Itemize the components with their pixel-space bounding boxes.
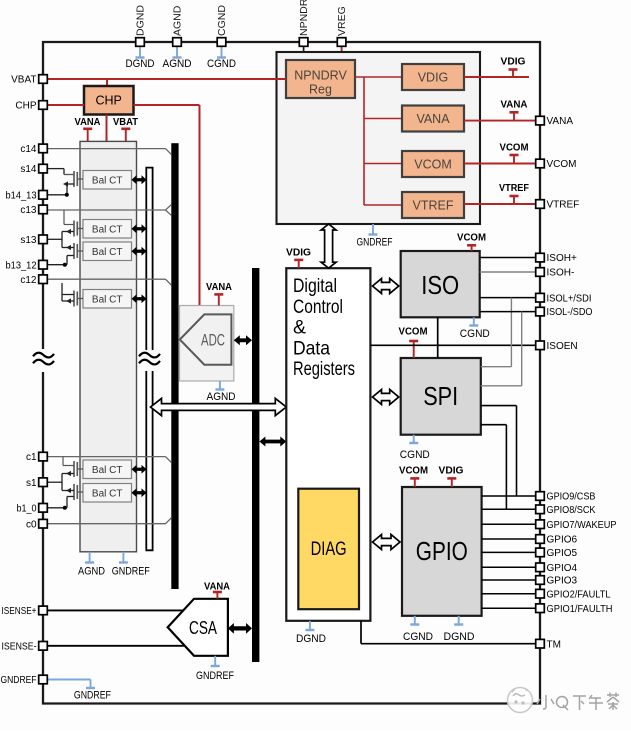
wire VDIG output with tap xyxy=(464,56,529,78)
wire GPIO3 xyxy=(482,579,536,581)
svg-text:AGND: AGND xyxy=(172,5,184,36)
arrow regulator to digital control xyxy=(321,224,336,268)
pin ISOH+ xyxy=(536,253,577,264)
pin TM xyxy=(536,639,561,650)
ground GNDREF under cell block xyxy=(112,552,150,578)
pin square VREG xyxy=(337,38,346,47)
pin GPIO8/SCK xyxy=(536,505,596,516)
ground CGND under GPIO xyxy=(403,616,433,643)
svg-text:DGND: DGND xyxy=(444,631,475,643)
svg-text:GNDREF: GNDREF xyxy=(74,690,111,702)
svg-text:ISENSE-: ISENSE- xyxy=(2,641,37,652)
svg-text:b13_12: b13_12 xyxy=(6,260,37,271)
transistor balancing FET group 13 xyxy=(48,210,83,267)
svg-text:GPIO3: GPIO3 xyxy=(547,576,578,587)
narrow vertical bus xyxy=(146,168,152,551)
svg-text:AGND: AGND xyxy=(163,58,192,70)
block GPIO xyxy=(402,487,482,616)
wire ISOH- xyxy=(480,271,536,273)
wire GPIO8/SCK xyxy=(482,508,536,510)
arrow bus 2 to digital control xyxy=(259,437,286,447)
wire SPI to GPIO8/SCK xyxy=(481,425,507,510)
wire SPI to GPIO9/CSB xyxy=(481,406,517,496)
svg-text:VANA: VANA xyxy=(204,581,230,593)
ground CGND under ISO xyxy=(460,317,490,340)
svg-text:Registers: Registers xyxy=(293,359,355,380)
svg-text:AGND: AGND xyxy=(207,391,236,403)
watermark logo xyxy=(508,688,533,713)
wire ISOL+/SDI xyxy=(480,298,536,367)
svg-text:ISOL-/SDO: ISOL-/SDO xyxy=(547,307,593,318)
pin s13 xyxy=(20,235,47,246)
block Digital Control and Data Registers xyxy=(286,268,370,621)
svg-text:VCOM: VCOM xyxy=(500,142,529,154)
arrow digital to SPI xyxy=(373,390,399,405)
tap VCOM at SPI xyxy=(399,326,428,359)
wire CHP output to ADC (VANA) xyxy=(134,105,200,306)
wire c12 to bus xyxy=(48,279,171,285)
pin GPIO4 xyxy=(536,563,578,574)
svg-text:Digital: Digital xyxy=(293,276,337,297)
svg-text:DGND: DGND xyxy=(135,5,147,36)
pin s14 xyxy=(20,164,47,175)
tap VDIG at GPIO xyxy=(439,465,464,488)
wire ISENSE+ xyxy=(48,609,183,611)
svg-text:GPIO9/CSB: GPIO9/CSB xyxy=(547,492,596,503)
pin ISOH- xyxy=(536,268,575,279)
svg-text:GNDREF: GNDREF xyxy=(112,566,150,578)
ground symbol CGND under top pin xyxy=(207,47,236,70)
arrow Bal CT 6 to bus xyxy=(132,488,147,497)
chip outline border xyxy=(43,42,540,704)
pin ISOEN xyxy=(536,341,578,352)
svg-text:Bal CT: Bal CT xyxy=(92,465,123,476)
wire ISOH+ xyxy=(480,257,536,259)
block Bal CT 6 xyxy=(83,484,132,503)
top pin label NPNDRV xyxy=(298,0,310,36)
ground symbol AGND under top pin xyxy=(163,47,192,70)
svg-text:CGND: CGND xyxy=(216,5,228,36)
block SPI xyxy=(401,358,481,435)
svg-text:GPIO4: GPIO4 xyxy=(547,563,578,574)
block Bal CT 4 xyxy=(83,290,132,309)
break symbol on left border xyxy=(33,353,54,365)
svg-text:DIAG: DIAG xyxy=(311,539,347,560)
top pin label CGND xyxy=(216,5,228,36)
pin VCOM xyxy=(536,159,577,170)
pin ISENSE- xyxy=(2,641,48,652)
svg-text:b1_0: b1_0 xyxy=(17,503,37,514)
svg-text:GPIO6: GPIO6 xyxy=(547,535,578,546)
regulator VCOM xyxy=(402,151,464,177)
svg-text:ISOH+: ISOH+ xyxy=(547,253,577,264)
regulator VANA xyxy=(402,106,464,132)
svg-text:ISENSE+: ISENSE+ xyxy=(2,606,37,617)
svg-text:ISO: ISO xyxy=(421,270,459,300)
ground AGND under ADC xyxy=(207,381,236,403)
wire ISENSE- xyxy=(48,645,185,647)
pin c13 xyxy=(20,205,47,216)
wire GPIO5 xyxy=(482,551,536,553)
svg-text:Bal CT: Bal CT xyxy=(92,247,123,258)
svg-text:CSA: CSA xyxy=(189,618,217,638)
svg-text:VANA: VANA xyxy=(547,116,574,127)
svg-text:b14_13: b14_13 xyxy=(6,190,37,201)
block Bal CT 1 xyxy=(83,171,132,190)
svg-text:TM: TM xyxy=(547,639,561,650)
pin GPIO3 xyxy=(536,576,578,587)
svg-text:Bal CT: Bal CT xyxy=(92,295,123,306)
svg-text:VDIG: VDIG xyxy=(418,71,449,85)
svg-text:GPIO: GPIO xyxy=(416,536,468,566)
wire VTREF output to pin xyxy=(464,182,536,204)
block CSA current sense amplifier xyxy=(168,599,228,656)
ground GNDREF under CSA xyxy=(196,656,234,682)
tap VBAT at cell block top xyxy=(113,116,139,141)
svg-text:Bal CT: Bal CT xyxy=(92,489,123,500)
wire GPIO1/FAULTH xyxy=(482,607,536,609)
pin CHP xyxy=(15,101,47,112)
ground DGND under digital control xyxy=(296,621,326,645)
svg-text:CGND: CGND xyxy=(403,631,433,643)
wire SPI to ISOL+/SDI xyxy=(481,366,512,368)
tap VDIG at digital control xyxy=(286,247,311,269)
tap VANA at ADC xyxy=(206,281,232,306)
svg-text:GPIO7/WAKEUP: GPIO7/WAKEUP xyxy=(547,520,617,531)
vertical bus bar 1 xyxy=(171,143,178,589)
wire GPIO6 xyxy=(482,538,536,540)
svg-text:Reg: Reg xyxy=(309,83,332,97)
svg-text:ISOL+/SDI: ISOL+/SDI xyxy=(547,293,592,304)
svg-text:s14: s14 xyxy=(20,164,37,175)
svg-text:NPNDRV: NPNDRV xyxy=(294,69,347,83)
svg-text:CHP: CHP xyxy=(95,94,121,108)
wire TM from digital control xyxy=(361,621,535,644)
wire s1 xyxy=(0,0,1,1)
svg-text:c1: c1 xyxy=(26,452,37,463)
pin square CGND xyxy=(217,38,226,47)
wire c0 to bus xyxy=(48,518,171,524)
arrow ADC to bus 2 xyxy=(234,335,252,345)
pin c0 xyxy=(26,519,47,530)
svg-text:VTREF: VTREF xyxy=(499,182,530,194)
wire SPI to ISOL-/SDO xyxy=(481,385,522,387)
tap VANA at CSA xyxy=(204,581,230,599)
wire c13 to bus xyxy=(48,205,171,216)
svg-text:Bal CT: Bal CT xyxy=(92,225,123,236)
wire NPNDRV pin to regulator xyxy=(303,47,305,61)
transistor balancing FET group 1 xyxy=(48,457,83,510)
block CHP charge pump xyxy=(84,86,134,115)
arrow Bal CT 5 to bus xyxy=(132,465,147,474)
pin VBAT xyxy=(11,75,47,86)
svg-text:VBAT: VBAT xyxy=(113,116,139,128)
wire GPIO9/CSB xyxy=(482,495,536,497)
svg-text:VREG: VREG xyxy=(336,6,348,36)
svg-text:AGND: AGND xyxy=(78,566,105,578)
top pin label DGND xyxy=(135,5,147,36)
svg-text:NPNDRV: NPNDRV xyxy=(298,0,310,36)
svg-text:c13: c13 xyxy=(20,205,37,216)
block ADC xyxy=(180,306,234,382)
arrow Bal CT 1 to bus xyxy=(132,175,147,184)
pin c14 xyxy=(20,144,47,155)
pin VANA xyxy=(536,116,574,127)
arrow CSA to bus 2 xyxy=(228,623,252,634)
top pin label AGND xyxy=(172,5,184,36)
svg-text:GNDREF: GNDREF xyxy=(1,675,37,686)
pin c1 xyxy=(26,452,47,463)
svg-text:VANA: VANA xyxy=(416,112,450,126)
pin b13_12 xyxy=(6,260,48,271)
block Bal CT 3 xyxy=(83,242,132,261)
wire GPIO2/FAULTL xyxy=(482,593,536,595)
wire VREG pin to regulator xyxy=(341,47,343,61)
wire c1 to bus xyxy=(48,457,171,463)
svg-text:GPIO2/FAULTL: GPIO2/FAULTL xyxy=(547,589,611,600)
svg-text:GPIO8/SCK: GPIO8/SCK xyxy=(547,505,596,516)
svg-text:VCOM: VCOM xyxy=(457,232,486,244)
pin c12 xyxy=(20,275,47,286)
pin GNDREF xyxy=(1,675,48,686)
ground DGND under GPIO xyxy=(444,616,475,643)
svg-text:CGND: CGND xyxy=(400,449,430,461)
tap VCOM at GPIO xyxy=(399,465,428,488)
svg-text:s13: s13 xyxy=(20,235,37,246)
svg-text:DGND: DGND xyxy=(296,633,326,645)
wire VANA output to pin xyxy=(464,99,536,121)
svg-text:DGND: DGND xyxy=(126,58,155,70)
regulator VDIG xyxy=(402,64,464,90)
svg-text:ISOEN: ISOEN xyxy=(547,341,578,352)
voltage regulator container box xyxy=(277,52,481,224)
pin VTREF xyxy=(536,200,580,211)
svg-text:Data: Data xyxy=(293,338,330,359)
pin square AGND xyxy=(173,38,182,47)
svg-text:VDIG: VDIG xyxy=(286,247,311,259)
svg-text:VCOM: VCOM xyxy=(399,465,428,477)
svg-text:VDIG: VDIG xyxy=(501,56,526,68)
tap VCOM at ISO xyxy=(457,232,486,252)
pin GPIO5 xyxy=(536,548,578,559)
wire VBAT (red) xyxy=(48,79,286,86)
cell balancing block container xyxy=(80,141,137,551)
ground CGND under SPI xyxy=(400,435,430,461)
svg-text:SPI: SPI xyxy=(423,381,458,411)
pin b1_0 xyxy=(17,503,48,514)
svg-text:ADC: ADC xyxy=(201,331,225,350)
pin s1 xyxy=(26,478,47,489)
wire ISOEN from digital control xyxy=(370,344,535,346)
block Bal CT 2 xyxy=(83,220,132,239)
wire GNDREF pin to ground xyxy=(48,680,111,702)
svg-text:c14: c14 xyxy=(20,144,37,155)
pin square NPNDRV xyxy=(299,38,308,47)
svg-text:CGND: CGND xyxy=(460,328,490,340)
svg-text:&: & xyxy=(293,318,306,339)
pin ISOL+/SDI xyxy=(536,293,592,304)
svg-text:VCOM: VCOM xyxy=(547,159,577,170)
svg-text:c0: c0 xyxy=(26,519,37,530)
svg-text:ISOH-: ISOH- xyxy=(547,268,575,279)
top pin label VREG xyxy=(336,6,348,36)
arrow Bal CT 2 to bus xyxy=(132,224,147,233)
block DIAG xyxy=(298,489,359,610)
transistor balancing FET group 14 xyxy=(48,169,83,197)
ground symbol DGND under top pin xyxy=(126,47,155,70)
pin GPIO9/CSB xyxy=(536,492,596,503)
block Bal CT 5 xyxy=(83,460,132,479)
pin GPIO2/FAULTL xyxy=(536,589,611,600)
pin GPIO6 xyxy=(536,535,578,546)
svg-text:VDIG: VDIG xyxy=(439,465,464,477)
svg-text:VTREF: VTREF xyxy=(547,200,580,211)
transistor balancing FET group 12 xyxy=(48,239,83,306)
regulator VTREF xyxy=(402,192,464,218)
wire VCOM output to pin xyxy=(464,142,536,164)
pin b14_13 xyxy=(6,190,48,201)
svg-text:VCOM: VCOM xyxy=(414,158,452,172)
arrow Bal CT 4 to bus xyxy=(132,294,147,303)
arrow DIAG to GPIO xyxy=(373,535,401,550)
svg-text:VANA: VANA xyxy=(206,281,232,293)
ground AGND under cell block xyxy=(78,552,105,578)
svg-text:CGND: CGND xyxy=(207,58,236,70)
watermark text xyxy=(537,693,619,711)
block ISO xyxy=(401,251,480,317)
svg-text:GPIO1/FAULTH: GPIO1/FAULTH xyxy=(547,604,613,615)
svg-text:VTREF: VTREF xyxy=(413,199,454,213)
svg-text:GNDREF: GNDREF xyxy=(196,670,234,682)
arrow digital to ISO xyxy=(373,279,399,294)
wire GPIO4 xyxy=(482,566,536,568)
break symbol on narrow bus xyxy=(139,353,160,365)
pin GPIO7/WAKEUP xyxy=(536,520,617,531)
pin square DGND xyxy=(136,38,145,47)
tap VANA at cell block top xyxy=(75,116,101,141)
arrow analog bus to digital control xyxy=(151,398,287,415)
svg-text:GNDREF: GNDREF xyxy=(357,237,393,249)
pin ISENSE+ xyxy=(2,606,48,617)
svg-text:VCOM: VCOM xyxy=(399,326,428,338)
svg-text:VBAT: VBAT xyxy=(11,75,36,86)
wire regulator trunk (red) xyxy=(355,77,402,205)
wire c14 to bus xyxy=(48,149,171,155)
svg-text:c12: c12 xyxy=(20,275,37,286)
regulator NPNDRV Reg xyxy=(286,60,355,98)
wire CHP pin xyxy=(48,104,84,106)
svg-text:VANA: VANA xyxy=(501,99,528,111)
svg-text:GPIO5: GPIO5 xyxy=(547,548,578,559)
wire CHP bottom to cell block xyxy=(106,115,108,142)
svg-text:Control: Control xyxy=(293,297,343,318)
wire GPIO7/WAKEUP xyxy=(482,523,536,525)
wire ISOL-/SDO xyxy=(480,312,536,386)
arrow Bal CT 3 to bus xyxy=(132,247,147,256)
ground GNDREF under regulator xyxy=(357,224,393,249)
svg-text:CHP: CHP xyxy=(15,101,36,112)
wire ISO to SPI xyxy=(437,317,439,358)
pin ISOL-/SDO xyxy=(536,307,593,318)
svg-text:Bal CT: Bal CT xyxy=(92,176,123,187)
vertical bus bar 2 xyxy=(252,268,259,662)
svg-text:VANA: VANA xyxy=(75,116,101,128)
pin GPIO1/FAULTH xyxy=(536,604,613,615)
svg-text:s1: s1 xyxy=(26,478,37,489)
